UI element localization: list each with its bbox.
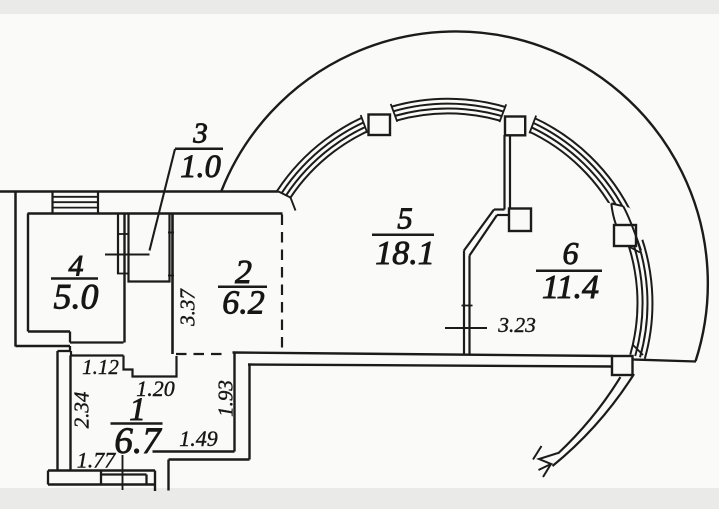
svg-text:6.7: 6.7: [114, 421, 162, 462]
svg-text:1.93: 1.93: [214, 380, 238, 417]
svg-text:3.37: 3.37: [176, 288, 200, 327]
svg-text:1.12: 1.12: [82, 355, 119, 379]
svg-text:1.0: 1.0: [180, 149, 221, 185]
svg-text:11.4: 11.4: [542, 269, 599, 306]
svg-text:5: 5: [397, 201, 413, 236]
svg-text:5.0: 5.0: [54, 277, 99, 317]
svg-text:1.77: 1.77: [77, 448, 117, 473]
svg-text:3: 3: [192, 118, 208, 150]
svg-text:1.49: 1.49: [179, 426, 218, 451]
svg-text:18.1: 18.1: [375, 235, 435, 272]
svg-text:6: 6: [563, 235, 579, 271]
svg-text:6.2: 6.2: [222, 285, 265, 322]
svg-text:3.23: 3.23: [497, 313, 536, 337]
svg-text:1.20: 1.20: [136, 376, 175, 401]
svg-text:2.34: 2.34: [70, 391, 94, 428]
